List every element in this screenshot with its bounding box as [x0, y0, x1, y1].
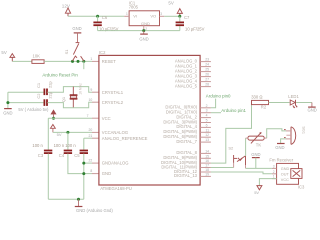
node C2 gnd junction [6, 101, 9, 104]
svg-text:5V: 5V [168, 1, 173, 6]
svg-text:ANALOG_5: ANALOG_5 [175, 83, 198, 88]
IC2 left pin names [102, 59, 148, 176]
svg-text:1: 1 [90, 57, 92, 61]
svg-text:GNDANALOG: GNDANALOG [102, 161, 129, 166]
svg-text:22p: 22p [48, 91, 53, 98]
node junction C7/5V [178, 15, 181, 18]
svg-text:C2: C2 [36, 93, 41, 99]
wire C2 to crystal bottom rail to pin 10 [47, 102, 92, 108]
supply 5V down arrow [254, 186, 262, 195]
svg-text:100 n: 100 n [54, 143, 65, 148]
IC2 right pin stubs digital 0-7 [200, 108, 211, 142]
svg-text:C6: C6 [102, 15, 108, 20]
pin 1 RESET stub [92, 60, 99, 62]
wire D12 to IC3 OUT [211, 172, 272, 174]
svg-text:CRYSTAL2: CRYSTAL2 [102, 100, 124, 105]
resistor R1 10K [32, 53, 44, 63]
svg-text:12: 12 [205, 133, 209, 137]
wire gnd row [84, 173, 92, 175]
svg-text:23: 23 [205, 58, 209, 62]
wire IC1 VO to 5V node [164, 15, 180, 17]
svg-text:18: 18 [205, 168, 209, 172]
svg-text:RESET: RESET [102, 59, 116, 64]
IC2 right pin stubs digital 8-13 [200, 153, 211, 176]
wire LED1 to GND [296, 102, 312, 104]
svg-text:VCC: VCC [281, 178, 289, 182]
svg-text:3: 3 [206, 109, 208, 113]
svg-text:5V: 5V [1, 50, 6, 55]
svg-text:17: 17 [205, 164, 209, 168]
svg-text:S2: S2 [228, 145, 234, 150]
svg-text:GND: GND [275, 145, 284, 150]
wire IC3 VCC to 5V [259, 179, 276, 186]
IC2 right pin stubs analog 23-28 [200, 62, 211, 87]
svg-text:16 MHz: 16 MHz [79, 83, 83, 95]
wire gnd left vertical [7, 92, 9, 108]
svg-text:GND (Arduino Gnd): GND (Arduino Gnd) [76, 208, 113, 213]
svg-text:VCCANALOG: VCCANALOG [102, 130, 128, 135]
svg-text:330 Ω: 330 Ω [251, 95, 262, 100]
svg-text:GND: GND [308, 108, 317, 113]
wire aref row [84, 137, 92, 139]
capacitor C1 [36, 81, 52, 96]
svg-text:22p: 22p [48, 81, 53, 88]
svg-text:C1: C1 [36, 82, 41, 88]
svg-text:100 n: 100 n [65, 143, 76, 148]
wire C1 to crystal top rail [47, 87, 92, 93]
svg-text:10 µF/25V: 10 µF/25V [185, 26, 205, 31]
net label Arduino pin0 [206, 94, 231, 108]
capacitor C7 [176, 15, 205, 32]
svg-text:10: 10 [89, 98, 93, 102]
svg-text:S1: S1 [64, 49, 69, 55]
svg-text:5: 5 [206, 119, 208, 123]
svg-text:C3: C3 [38, 153, 44, 158]
svg-text:7805: 7805 [129, 4, 139, 9]
ground under IC1 [139, 31, 148, 42]
pin 8 stub [92, 173, 99, 175]
svg-text:IC2: IC2 [99, 50, 106, 55]
trimmer TK [246, 132, 267, 148]
voltage regulator IC1 7805 [124, 1, 164, 31]
svg-text:24: 24 [205, 63, 209, 67]
wire D10 elbow to R2/LED [211, 103, 252, 164]
supply 5V vcc arrow [51, 110, 56, 118]
wire R2 to LED1 [269, 102, 290, 104]
svg-text:10K: 10K [33, 53, 41, 58]
svg-text:3: 3 [273, 164, 275, 168]
node C4 junction [66, 131, 69, 134]
svg-text:VO: VO [150, 14, 156, 19]
svg-text:C4: C4 [59, 153, 65, 158]
svg-text:5V ( Arduino 5v): 5V ( Arduino 5v) [18, 107, 49, 112]
ground LED [308, 103, 317, 113]
crystal Q1 [61, 83, 83, 108]
ground bottom (Arduino GND) [75, 199, 114, 213]
node junction C6/12V [96, 15, 99, 18]
speaker SG1 [284, 126, 305, 144]
svg-text:Q1: Q1 [61, 96, 66, 102]
pin 21 stub [92, 137, 99, 139]
svg-text:IC3: IC3 [298, 185, 305, 190]
svg-text:14: 14 [205, 149, 209, 153]
svg-text:6: 6 [206, 123, 208, 127]
svg-text:Arduino Reset Pin: Arduino Reset Pin [42, 73, 78, 78]
switch S1 [64, 43, 84, 61]
svg-text:GND: GND [3, 110, 12, 115]
wire avcc row [53, 131, 92, 133]
svg-text:27: 27 [205, 78, 209, 82]
svg-text:SG1: SG1 [301, 126, 305, 134]
svg-text:7: 7 [87, 114, 89, 118]
svg-text:GND: GND [139, 37, 148, 42]
pin 20 stub [92, 131, 99, 133]
svg-text:19: 19 [205, 172, 209, 176]
antenna X box IC3 [291, 169, 302, 179]
ground mid (S2 net) [251, 152, 260, 169]
capacitor C6 [93, 15, 118, 32]
switch S2 [228, 145, 245, 168]
wire bottom gnd rail [48, 198, 84, 200]
wire pot left vertical [245, 138, 247, 156]
LED LED1 [288, 94, 299, 108]
capacitor C4 [54, 132, 84, 173]
svg-text:8: 8 [90, 169, 92, 173]
ground speaker [275, 144, 284, 150]
svg-text:2: 2 [145, 27, 147, 31]
svg-text:LED1: LED1 [288, 94, 299, 99]
wire gnd net to IC3 [246, 167, 272, 169]
svg-text:GND: GND [281, 167, 290, 171]
wire speaker bottom to gnd [281, 139, 286, 143]
wire bottom rail (C6 to C7) [98, 30, 180, 32]
wire gndanalog row [84, 162, 92, 164]
svg-text:3: 3 [160, 12, 162, 16]
svg-text:GND: GND [72, 26, 81, 31]
svg-text:5V: 5V [254, 190, 259, 195]
wire crystal1 net [8, 91, 44, 93]
pin 7 stub [92, 117, 99, 119]
supply 5V reset rail [1, 50, 14, 61]
capacitor C5 [65, 138, 88, 199]
net label Arduino pin1 [211, 108, 247, 113]
svg-text:22: 22 [89, 159, 93, 163]
node bottom gnd junction [77, 198, 80, 201]
wire pot right to speaker top [267, 129, 286, 138]
wire 12V to IC1 VI [68, 15, 124, 17]
svg-text:DIGITAL_13: DIGITAL_13 [174, 173, 198, 178]
svg-text:100 n: 100 n [32, 143, 43, 148]
svg-text:ATMEGA168-PU: ATMEGA168-PU [100, 186, 132, 191]
svg-text:25: 25 [205, 68, 209, 72]
svg-text:15: 15 [205, 154, 209, 158]
svg-text:20: 20 [89, 128, 93, 132]
svg-text:2: 2 [273, 170, 275, 174]
svg-text:11: 11 [205, 128, 209, 132]
wire D11 to switch S2 [211, 167, 234, 169]
svg-text:GND: GND [102, 171, 111, 176]
capacitor C2 [36, 91, 52, 106]
svg-text:OUT: OUT [281, 172, 290, 176]
supply 5V avcc arrow [51, 125, 62, 138]
svg-text:R2: R2 [261, 105, 267, 110]
net label Arduino Reset Pin [42, 61, 83, 77]
svg-text:TK: TK [256, 143, 262, 148]
svg-text:GND: GND [251, 152, 260, 157]
IC3 Fm Receiver [269, 157, 305, 189]
node junctions reset net [71, 60, 74, 63]
pin 10 stub [92, 101, 99, 103]
svg-text:13: 13 [205, 138, 209, 142]
svg-text:2: 2 [206, 104, 208, 108]
pin 22 stub [92, 162, 99, 164]
svg-text:ANALOG_REFERENCE: ANALOG_REFERENCE [102, 136, 148, 141]
wire vcc row [48, 117, 92, 119]
svg-text:C7: C7 [184, 15, 190, 20]
wire R1 to IC2 RESET [44, 60, 92, 62]
wire crystal2 net [8, 102, 44, 104]
resistor R2 330 ohm [251, 95, 268, 110]
node vcc junction [52, 117, 55, 120]
svg-text:1: 1 [273, 175, 275, 179]
svg-text:VCC: VCC [102, 116, 111, 121]
svg-text:Arduino pin1: Arduino pin1 [221, 108, 246, 113]
ground above S1 [72, 26, 81, 43]
svg-text:9: 9 [90, 88, 92, 92]
IC U2 ATMEGA168-PU box [99, 50, 200, 191]
svg-text:26: 26 [205, 73, 209, 77]
svg-text:Arduino pin0: Arduino pin0 [206, 94, 231, 99]
supply 12V [62, 4, 71, 17]
capacitor C3 [32, 143, 52, 199]
svg-text:VI: VI [133, 14, 137, 19]
wire 5V to R1 [12, 60, 32, 62]
svg-text:DIGITAL_7: DIGITAL_7 [176, 139, 197, 144]
pin 9 stub [92, 91, 99, 93]
svg-text:4: 4 [206, 114, 208, 118]
svg-text:28: 28 [205, 83, 209, 87]
svg-text:C5: C5 [74, 153, 80, 158]
IC2 right pin names [161, 58, 198, 178]
wire vcc corner down to C3 [47, 118, 49, 150]
node junction IC1 GND [142, 29, 145, 32]
svg-text:GND: GND [141, 21, 150, 26]
svg-text:12V: 12V [62, 4, 71, 9]
supply 5V top [168, 1, 182, 17]
svg-text:Fm Receiver: Fm Receiver [269, 157, 293, 162]
svg-text:16: 16 [205, 159, 209, 163]
ground left crystal [3, 109, 12, 116]
svg-text:1: 1 [126, 12, 128, 16]
svg-text:CRYSTAL1: CRYSTAL1 [102, 90, 124, 95]
svg-text:21: 21 [89, 134, 93, 138]
